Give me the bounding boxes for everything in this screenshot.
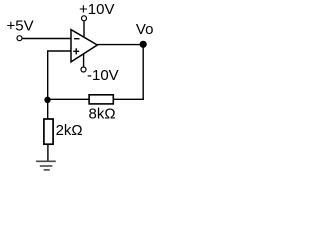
terminal -10V supply bbox=[81, 67, 86, 72]
wire feedback right segment bbox=[113, 98, 144, 100]
svg-text:+5V: +5V bbox=[7, 18, 34, 35]
svg-text:-10V: -10V bbox=[87, 67, 119, 84]
svg-text:2kΩ: 2kΩ bbox=[56, 122, 83, 139]
wire feedback left segment bbox=[48, 98, 89, 100]
wire Vo node down to feedback bbox=[142, 44, 144, 99]
node Vo bbox=[140, 41, 147, 48]
op-amp inverting input marker bbox=[74, 38, 79, 40]
op-amp non-inverting input marker bbox=[73, 50, 79, 52]
ground bbox=[36, 161, 56, 170]
op-amp U1 bbox=[71, 30, 97, 62]
resistor R2 2k bbox=[44, 119, 53, 144]
svg-text:8kΩ: 8kΩ bbox=[89, 106, 116, 123]
wire input to inverting input bbox=[23, 38, 72, 40]
wire +10V supply to op-amp bbox=[83, 21, 85, 37]
wire R2 to ground bbox=[47, 144, 49, 161]
terminal +5V input bbox=[17, 36, 22, 41]
node junction feedback/input/R2 bbox=[44, 97, 50, 103]
wire op-amp output to Vo node bbox=[97, 44, 143, 46]
wire -10V supply to op-amp bbox=[83, 54, 85, 67]
svg-text:Vo: Vo bbox=[136, 21, 154, 38]
terminal +10V supply bbox=[82, 16, 87, 21]
resistor R1 8k bbox=[89, 95, 113, 104]
wire non-inverting input bbox=[48, 51, 71, 100]
wire junction to R2 bbox=[47, 100, 49, 120]
